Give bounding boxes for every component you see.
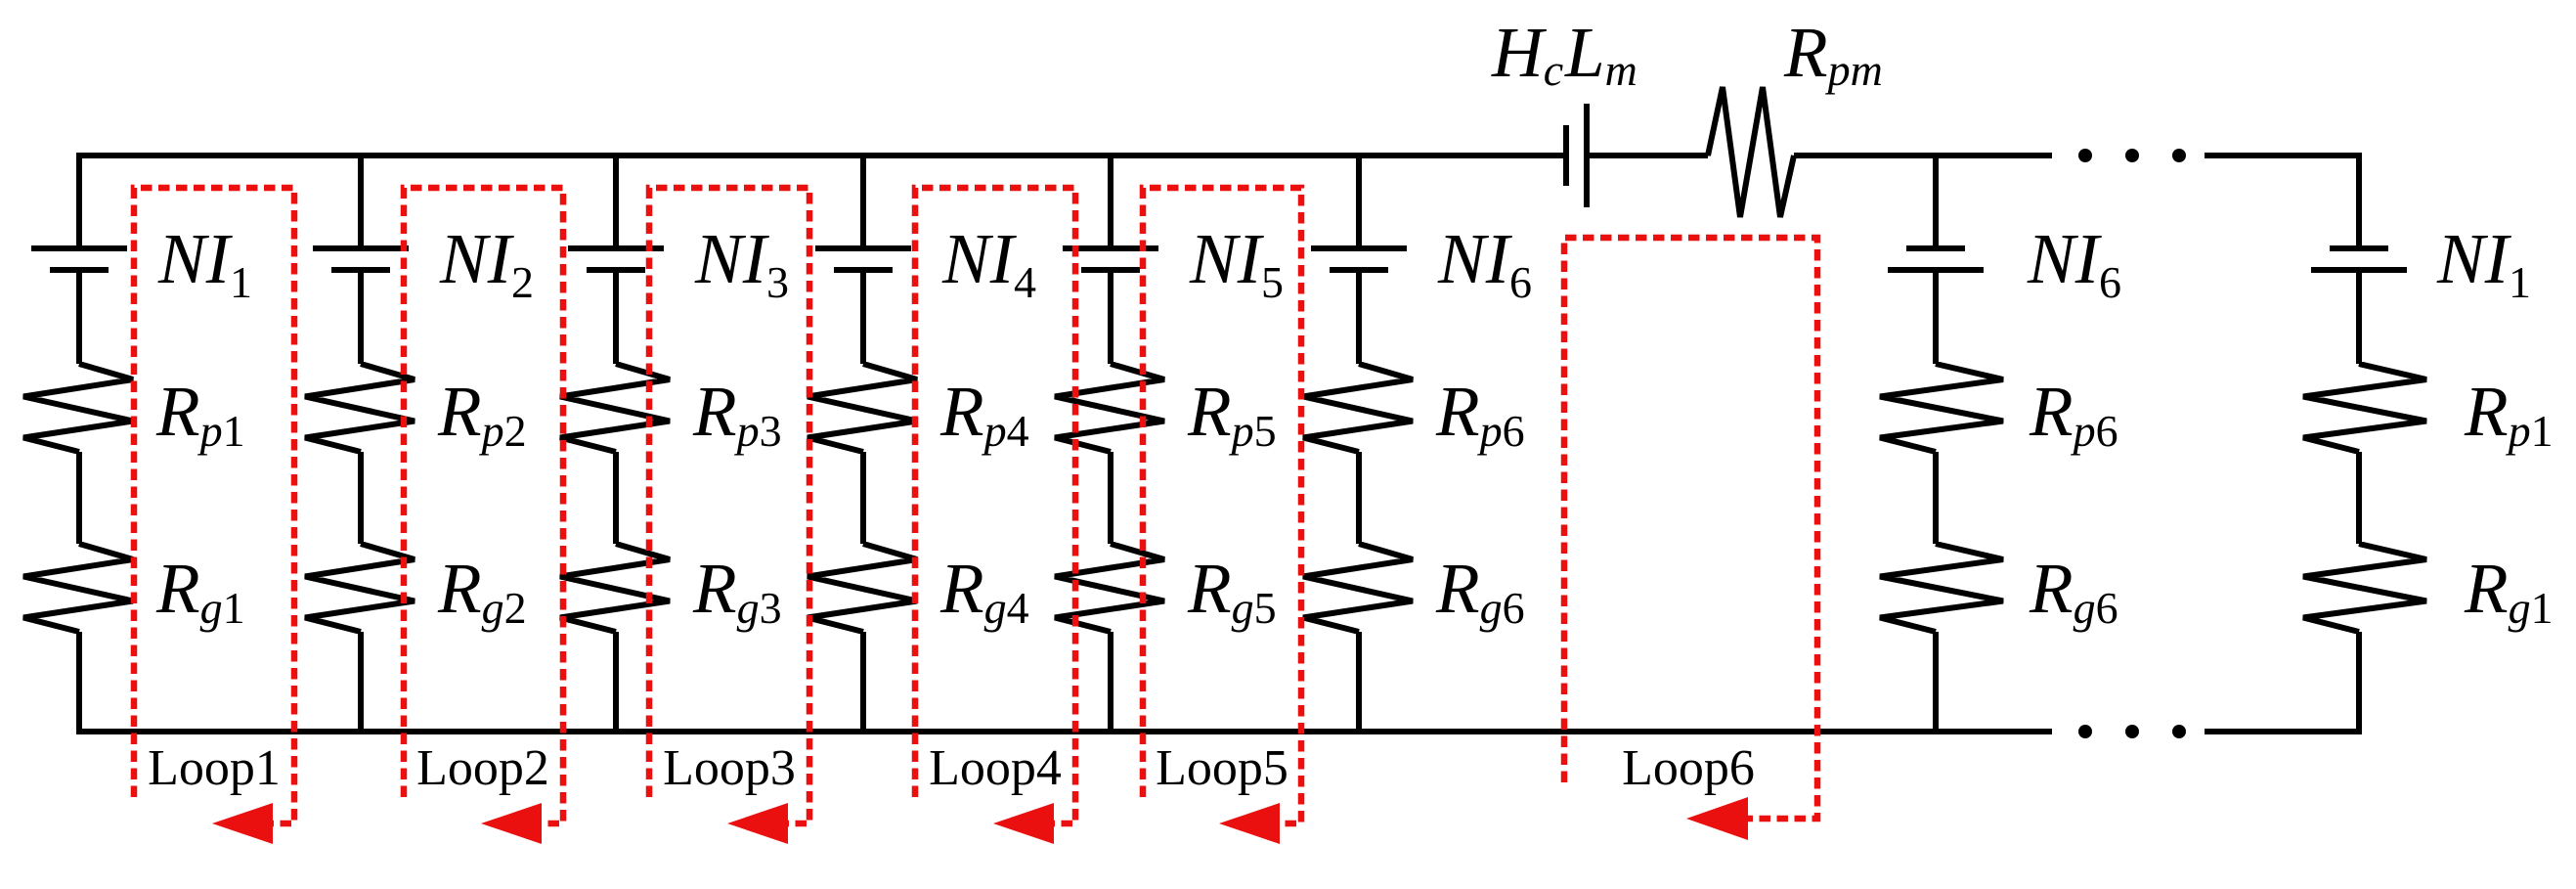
svg-text:NI4: NI4 [941, 219, 1036, 307]
svg-text:Hc: Hc [1491, 13, 1563, 95]
svg-text:Rg2: Rg2 [437, 549, 527, 633]
svg-text:NI6: NI6 [2027, 219, 2121, 307]
svg-text:Rp5: Rp5 [1187, 372, 1277, 456]
svg-text:Loop5: Loop5 [1156, 740, 1288, 796]
svg-text:Rp1: Rp1 [2464, 372, 2554, 456]
svg-text:NI5: NI5 [1189, 219, 1284, 307]
svg-text:NI1: NI1 [157, 219, 252, 307]
svg-text:NI3: NI3 [694, 219, 789, 307]
svg-text:Loop6: Loop6 [1622, 740, 1755, 796]
svg-text:NI6: NI6 [1437, 219, 1532, 307]
svg-text:Loop3: Loop3 [663, 740, 796, 796]
svg-text:Loop4: Loop4 [929, 740, 1062, 796]
svg-text:Loop1: Loop1 [148, 740, 281, 796]
svg-text:Rp3: Rp3 [692, 372, 782, 456]
svg-text:Rg5: Rg5 [1187, 549, 1277, 633]
svg-text:Lm: Lm [1564, 13, 1637, 95]
svg-text:Rp6: Rp6 [1435, 372, 1525, 456]
svg-text:Rp1: Rp1 [155, 372, 245, 456]
svg-text:Rp2: Rp2 [437, 372, 527, 456]
svg-text:NI2: NI2 [439, 219, 534, 307]
svg-text:Rg4: Rg4 [939, 549, 1029, 633]
svg-text:Rpm: Rpm [1783, 13, 1883, 95]
svg-text:Rp4: Rp4 [939, 372, 1029, 456]
svg-text:Rg1: Rg1 [155, 549, 245, 633]
svg-text:Loop2: Loop2 [416, 740, 549, 796]
svg-text:Rg3: Rg3 [692, 549, 782, 633]
svg-text:NI1: NI1 [2436, 219, 2531, 307]
svg-text:Rg6: Rg6 [1435, 549, 1525, 633]
svg-text:Rg1: Rg1 [2464, 549, 2554, 633]
svg-text:Rp6: Rp6 [2029, 372, 2118, 456]
svg-text:Rg6: Rg6 [2029, 549, 2118, 633]
